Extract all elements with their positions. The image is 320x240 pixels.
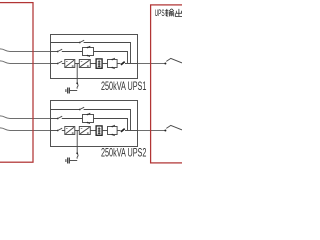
svg-text:250kVA UPS2: 250kVA UPS2 [101,146,146,160]
svg-text:250kVA UPS1: 250kVA UPS1 [101,79,146,93]
svg-text:UPS: UPS [155,8,165,19]
